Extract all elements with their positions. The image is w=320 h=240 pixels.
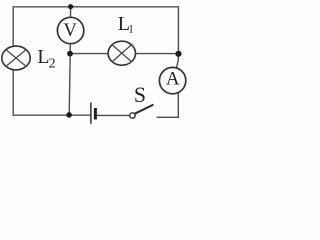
lamp L1	[108, 41, 135, 65]
battery cell	[91, 103, 96, 124]
svg-text:V: V	[64, 21, 78, 41]
wire: voltmeter stub from top junction down to middle junction	[69, 7, 71, 54]
lamp L2	[2, 46, 30, 70]
junction dot right	[175, 51, 181, 57]
wire: L1 branch horizontal	[70, 53, 178, 55]
label L2	[37, 46, 55, 72]
svg-text:1: 1	[128, 24, 134, 36]
wire: battery to switch	[97, 114, 130, 116]
ammeter A	[159, 67, 185, 93]
svg-text:2: 2	[49, 57, 56, 72]
junction dot bottom	[66, 112, 72, 118]
svg-text:S: S	[134, 83, 146, 107]
wire: right junction down to ammeter top	[176, 54, 178, 69]
voltmeter V	[57, 17, 83, 43]
wire: middle vertical from junction to bottom junction	[69, 54, 70, 115]
switch S	[130, 105, 154, 119]
junction dot middle	[67, 51, 73, 57]
junction dot top	[68, 4, 73, 9]
wire: bottom-left, left side, top and upper-right loop	[13, 7, 178, 115]
wire: switch contact to bottom-right corner up to ammeter	[157, 92, 179, 118]
svg-text:A: A	[166, 69, 180, 90]
label L1	[118, 13, 134, 36]
